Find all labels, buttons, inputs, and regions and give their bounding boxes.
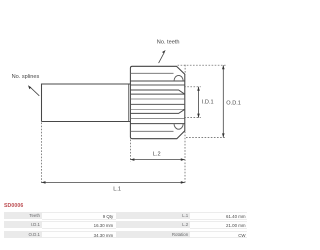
gear top band line <box>130 80 184 82</box>
svg-text:No. splines: No. splines <box>12 74 40 80</box>
tooth line 2 <box>130 93 184 95</box>
extension line right (dashed) <box>184 65 186 185</box>
tooth wedge lower <box>130 109 184 113</box>
O.D.1 bottom leader (dashed) <box>186 136 226 138</box>
O.D.1 top leader (dashed) <box>178 64 227 66</box>
I.D.1 dimension line <box>198 87 200 118</box>
extension line L1 left (dashed) <box>41 123 43 185</box>
tooth line 5 <box>130 108 184 110</box>
gear top ring line <box>130 72 173 74</box>
I.D.1 bottom leader (dashed) <box>184 117 201 119</box>
svg-text:No. teeth: No. teeth <box>157 39 180 45</box>
gear bottom dome arc <box>174 124 183 130</box>
shaft end face (hidden inside gear) <box>128 85 130 122</box>
gear bottom ring line <box>130 130 173 132</box>
extension line L2 left (dashed) <box>129 140 131 162</box>
tooth line 3 <box>130 98 184 100</box>
L1 dimension line <box>42 181 185 183</box>
tooth line 4 <box>130 103 184 105</box>
I.D.1 top leader (dashed) <box>184 86 201 88</box>
tooth line 1 <box>130 84 184 86</box>
table row 2 right: L.2 <box>116 221 190 228</box>
table row 2 left: I.D.1 <box>4 221 42 228</box>
tooth wedge upper <box>130 90 184 94</box>
table row 3 right: Rotation <box>116 231 190 238</box>
gear bottom band line <box>130 123 184 125</box>
table row 3 left: O.D.1 <box>4 231 42 238</box>
tooth line 6 <box>130 118 184 120</box>
part number SD0006 <box>4 203 23 209</box>
O.D.1 dimension line <box>222 65 224 137</box>
svg-text:L.2: L.2 <box>153 152 161 158</box>
leader arrow No. teeth <box>159 53 165 64</box>
gear top dome arc <box>174 75 183 81</box>
leader arrow No. splines <box>30 87 39 96</box>
table row 1 right: L.1 <box>116 212 190 219</box>
svg-text:L.1: L.1 <box>113 186 121 192</box>
table row 1 left: Teeth <box>4 212 42 219</box>
shaft <box>42 84 131 122</box>
gear outline <box>130 66 184 138</box>
L2 dimension line <box>130 159 184 161</box>
svg-text:I.D.1: I.D.1 <box>202 99 214 105</box>
svg-text:O.D.1: O.D.1 <box>226 101 241 107</box>
